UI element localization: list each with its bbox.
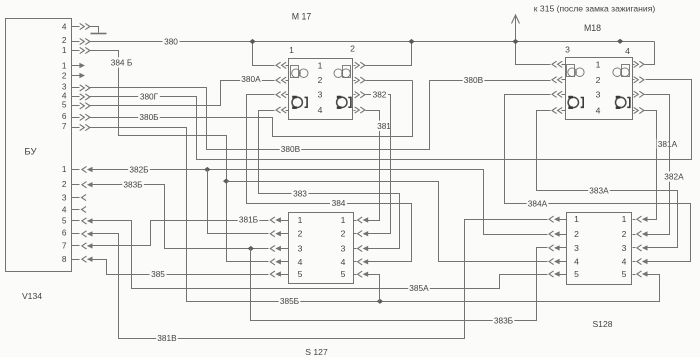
wire 380В from BU pin3 to M18 pin2 left: [72, 87, 80, 89]
wire 380 drop to M17 pin1 left: [253, 42, 275, 66]
label 380: [163, 36, 180, 46]
wire 380 main feed line: [72, 41, 80, 43]
label 381: [376, 121, 393, 131]
svg-text:1: 1: [596, 59, 601, 69]
label 383: [292, 188, 309, 198]
svg-text:М18: М18: [584, 23, 601, 33]
junction node 380/M17-1-right: [408, 39, 414, 44]
wire 384 from M17 pin3 left to S127 pin4 right: [286, 94, 289, 96]
lock motor symbol (circle with brushes): [568, 97, 578, 107]
svg-text:4: 4: [62, 22, 67, 32]
wire branch 382Б to S127 pin2 left: [208, 170, 269, 234]
svg-text:1: 1: [574, 214, 579, 224]
svg-text:2: 2: [596, 75, 601, 85]
label 382: [371, 89, 388, 99]
wire 384А from M18 pin3 left to S128 pin4 right: [562, 94, 566, 96]
svg-text:385Б: 385Б: [280, 296, 300, 306]
label 380В (right): [463, 75, 485, 85]
svg-text:381А: 381А: [658, 139, 678, 149]
connector block M17 box: [289, 59, 353, 120]
svg-text:2: 2: [574, 229, 579, 239]
lock actuator solenoid symbol (top right): [622, 65, 630, 77]
svg-text:383Б: 383Б: [494, 315, 514, 325]
wire 381В from BU pin6-low to S128 pin1 left: [72, 233, 80, 235]
svg-text:384 Б: 384 Б: [111, 58, 133, 68]
svg-text:381: 381: [377, 121, 391, 131]
BU pin3-low stub: [72, 197, 80, 199]
wire 385А from BU pin5-low to S128 pin5 left: [72, 220, 80, 222]
label 380А: [240, 74, 262, 84]
svg-text:382Б: 382Б: [129, 164, 149, 174]
lock motor symbol (circle with brushes): [616, 97, 626, 107]
wire 385 from BU pin8-low to S127 pin5 left: [72, 259, 80, 261]
svg-text:383: 383: [293, 189, 307, 199]
svg-text:3: 3: [596, 89, 601, 99]
wire M17 pin1 right to 380: [354, 65, 356, 67]
wire branch to S127 pin5 right: [368, 275, 380, 302]
wire 380Г from BU pin4 to M18 pin2 right: [72, 96, 80, 98]
wire 380 drop to M18 pin1 left: [516, 42, 551, 65]
svg-text:7: 7: [62, 121, 67, 131]
label 385А: [408, 283, 430, 293]
svg-text:4: 4: [341, 257, 346, 267]
wire M18 pin1 right to 380: [633, 64, 635, 66]
svg-text:1: 1: [62, 61, 67, 71]
svg-text:7: 7: [62, 241, 67, 251]
svg-text:2: 2: [318, 75, 323, 85]
wire 382А from M18 pin3 right to S128 pin2 right: [633, 94, 635, 96]
junction node 380/k315: [512, 39, 518, 44]
svg-text:2: 2: [62, 179, 67, 189]
svg-text:380А: 380А: [241, 74, 261, 84]
BU pin1-mid arrow stub: [72, 65, 81, 67]
svg-text:384: 384: [332, 198, 346, 208]
label 385Б: [279, 296, 301, 306]
label 381Б: [238, 215, 260, 225]
svg-text:4: 4: [622, 257, 627, 267]
svg-text:381Б: 381Б: [239, 215, 259, 225]
lock actuator solenoid symbol (top left): [291, 66, 299, 78]
junction node 385Б/S127-5: [377, 299, 383, 304]
svg-text:1: 1: [62, 164, 67, 174]
svg-text:1: 1: [318, 60, 323, 70]
label 383Б (left): [122, 179, 144, 189]
svg-text:2: 2: [298, 229, 303, 239]
label 382Б: [128, 164, 150, 174]
svg-text:1: 1: [62, 45, 67, 55]
switch block S127 box: [289, 213, 354, 284]
svg-text:1: 1: [298, 215, 303, 225]
label 383А: [588, 186, 610, 196]
svg-text:380Г: 380Г: [140, 92, 159, 102]
svg-text:382А: 382А: [664, 172, 684, 182]
lock actuator solenoid symbol (top left): [567, 65, 575, 77]
svg-text:1: 1: [622, 214, 627, 224]
label 380Б: [138, 112, 160, 122]
label 382А: [663, 171, 685, 181]
svg-text:3: 3: [565, 45, 570, 55]
svg-text:380В: 380В: [464, 75, 484, 85]
svg-text:4: 4: [318, 105, 323, 115]
lock actuator solenoid symbol (top right): [343, 66, 351, 78]
wire 382Б from BU pin1-low to S128 pin2 left: [72, 169, 80, 171]
BU pin4 top stub to ground: [72, 26, 80, 28]
label 384А: [527, 198, 549, 208]
svg-text:383Б: 383Б: [123, 180, 143, 190]
svg-text:4: 4: [298, 257, 303, 267]
svg-text:382: 382: [373, 89, 387, 99]
wire 384Б branch to S128 pin4 left: [227, 182, 548, 262]
wire 380Б from BU pin6 to M17 pin2 right: [72, 117, 80, 119]
label 384 Б: [108, 57, 134, 67]
svg-text:5: 5: [622, 269, 627, 279]
wire 382 from M17 pin3 right to S127 pin2 right: [354, 94, 356, 96]
svg-text:к 315 (после замка зажигания): к 315 (после замка зажигания): [534, 4, 656, 14]
wire 383А from M18 pin4 left to S128 pin3 right: [562, 110, 566, 112]
lock motor symbol (circle with brushes): [292, 97, 302, 107]
control unit BU (V134) box: [6, 19, 72, 272]
wire 384Б from BU pin1-top to S127 pin4 left: [72, 50, 80, 52]
BU pin2-mid arrow stub: [72, 75, 81, 77]
lock motor symbol (circle with brushes): [337, 97, 347, 107]
svg-text:8: 8: [62, 254, 67, 264]
svg-text:3: 3: [298, 244, 303, 254]
svg-text:1: 1: [341, 215, 346, 225]
ground symbol: [91, 33, 107, 35]
svg-text:5: 5: [62, 216, 67, 226]
svg-text:3: 3: [622, 243, 627, 253]
label 381В: [156, 333, 178, 343]
svg-text:3: 3: [62, 193, 67, 203]
wire 383 from M17 pin4 left to S127 pin3 right: [286, 110, 289, 112]
svg-text:5: 5: [341, 269, 346, 279]
svg-text:2: 2: [350, 44, 355, 54]
svg-text:S128: S128: [592, 319, 612, 329]
svg-text:2: 2: [62, 35, 67, 45]
svg-text:4: 4: [574, 257, 579, 267]
wire 381Б from BU pin7-low to S127 pin1 left: [72, 245, 80, 247]
wire 385Б from BU pin7-mid to S128 pin5 right: [72, 127, 80, 129]
svg-text:380В: 380В: [281, 144, 301, 154]
svg-text:2: 2: [341, 229, 346, 239]
switch block S128 box: [567, 213, 632, 285]
label 380Г: [138, 92, 160, 102]
svg-text:3: 3: [341, 244, 346, 254]
svg-text:4: 4: [62, 205, 67, 215]
junction node 380/M17-1: [249, 39, 255, 44]
svg-text:380Б: 380Б: [139, 112, 159, 122]
svg-text:385: 385: [151, 269, 165, 279]
svg-text:4: 4: [625, 46, 630, 56]
svg-text:2: 2: [622, 229, 627, 239]
svg-text:S 127: S 127: [305, 347, 328, 357]
svg-text:384А: 384А: [528, 198, 548, 208]
svg-text:380: 380: [164, 36, 178, 46]
wire 381А from M18 pin4 right to S128 pin1 right: [633, 110, 635, 112]
svg-text:1: 1: [289, 45, 294, 55]
label 380В (left): [280, 144, 302, 154]
wire BU pin3-mid drop (to 380В node): [206, 88, 208, 150]
junction node 383Б/S128-3: [248, 246, 254, 251]
junction node 384Б branch: [223, 179, 229, 184]
svg-text:383А: 383А: [589, 186, 609, 196]
label 384: [330, 198, 347, 208]
svg-text:3: 3: [574, 243, 579, 253]
wire 383Б from BU pin2-low to S127 pin3 left: [72, 184, 80, 186]
svg-text:БУ: БУ: [24, 147, 37, 158]
BU pin4-low stub: [72, 209, 80, 211]
wire branch 383Б to S128 pin3 left: [251, 248, 548, 321]
junction node 380/M18: [617, 39, 623, 44]
connector block M18 box: [566, 58, 633, 120]
wire 381 from M17 pin4 right to S127 pin1 right: [354, 110, 356, 112]
svg-text:5: 5: [298, 269, 303, 279]
svg-text:5: 5: [62, 100, 67, 110]
svg-text:М 17: М 17: [292, 12, 312, 22]
svg-text:6: 6: [62, 228, 67, 238]
label 383Б (right): [493, 315, 515, 325]
junction node 382Б/S127-2: [204, 167, 210, 172]
svg-text:5: 5: [574, 269, 579, 279]
svg-text:2: 2: [62, 71, 67, 81]
wire 380А from BU pin5 to M17 pin2 left: [72, 105, 80, 107]
label 385: [150, 269, 167, 279]
svg-text:4: 4: [596, 106, 601, 116]
label 381А: [657, 139, 679, 149]
svg-text:3: 3: [318, 90, 323, 100]
svg-text:385А: 385А: [409, 283, 429, 293]
svg-text:6: 6: [62, 111, 67, 121]
svg-text:381В: 381В: [157, 333, 177, 343]
svg-text:V134: V134: [22, 291, 42, 301]
wire to +12V k315 with up arrow: [515, 15, 517, 42]
